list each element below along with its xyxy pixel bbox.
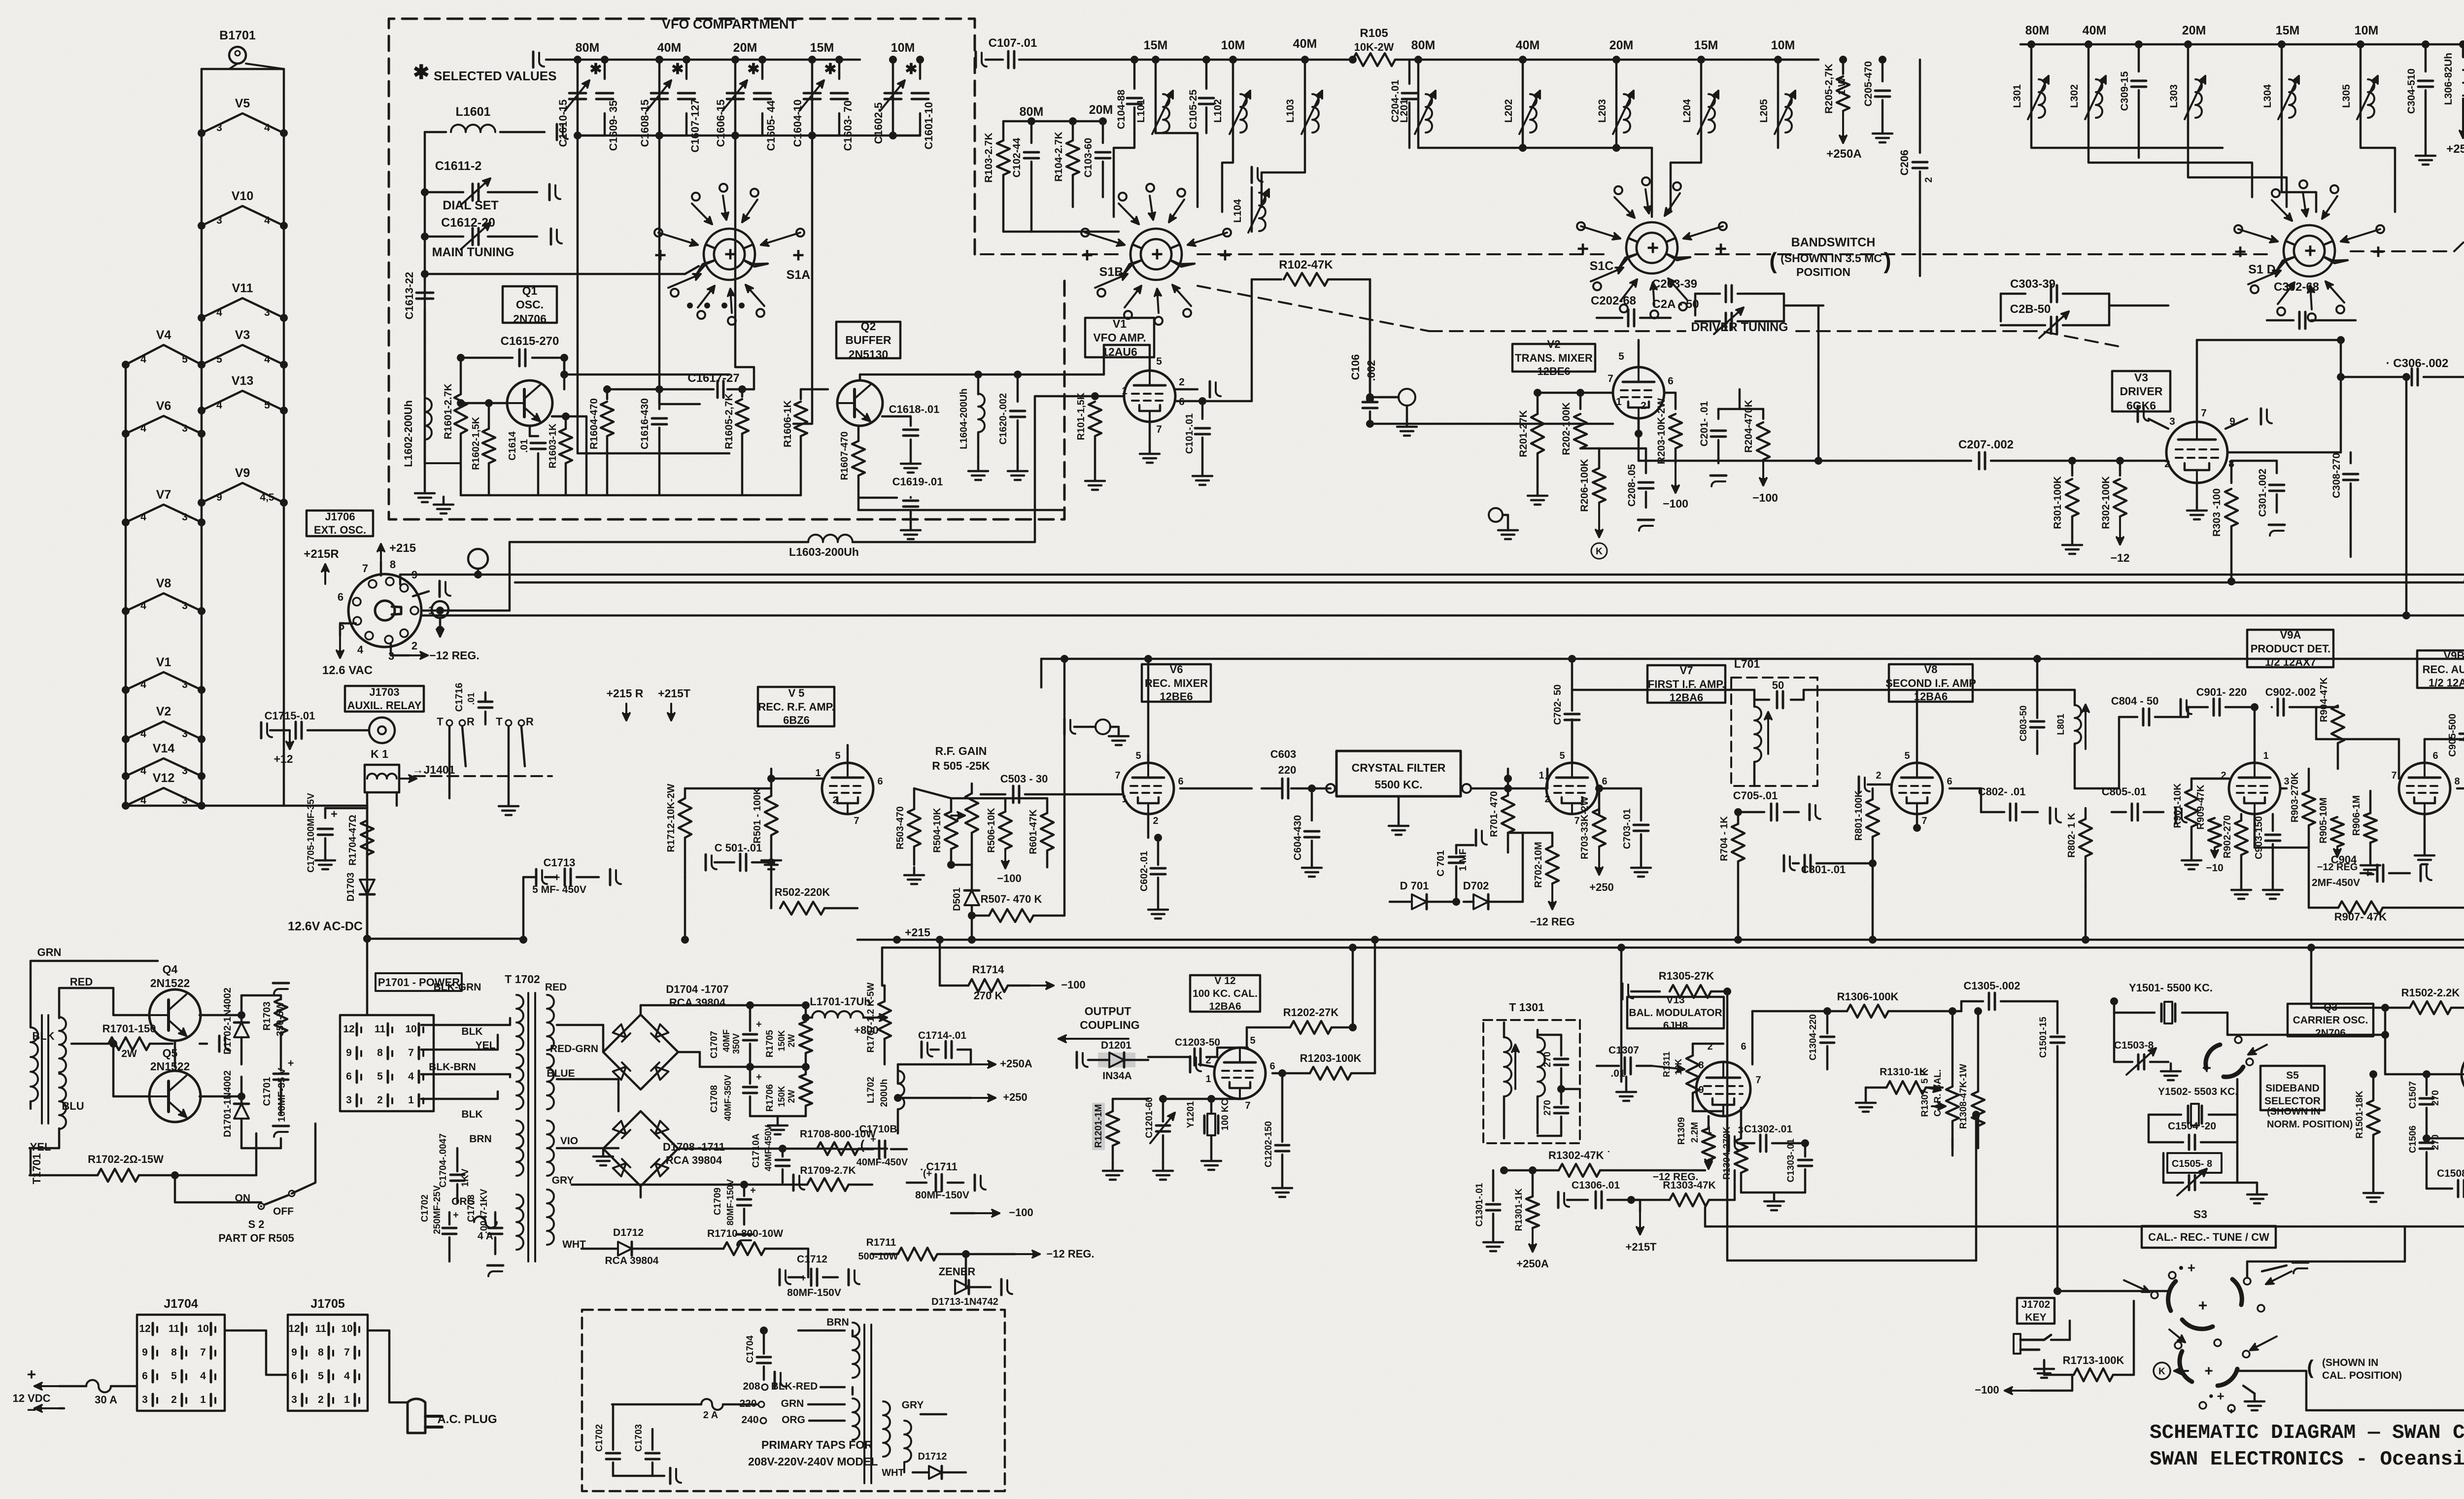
svg-text:C602-.01: C602-.01 bbox=[1139, 851, 1150, 891]
svg-text:−100: −100 bbox=[1061, 979, 1086, 991]
transformer T1301 enclosure bbox=[1483, 1020, 1580, 1143]
svg-text:5: 5 bbox=[377, 1071, 383, 1082]
svg-text:• +: • + bbox=[2209, 1389, 2224, 1403]
svg-text:3: 3 bbox=[2169, 416, 2175, 427]
svg-text:7: 7 bbox=[1574, 816, 1579, 826]
svg-text:12: 12 bbox=[288, 1323, 300, 1334]
svg-text:D1704 -1707: D1704 -1707 bbox=[666, 983, 728, 995]
svg-text:R909-47K: R909-47K bbox=[2195, 784, 2206, 830]
transistor Q1 bbox=[507, 380, 552, 426]
svg-text:2W: 2W bbox=[787, 1090, 796, 1103]
tube heater V12 bbox=[126, 788, 202, 806]
svg-text:S3: S3 bbox=[2193, 1208, 2207, 1221]
svg-text:CAL. POSITION): CAL. POSITION) bbox=[2322, 1370, 2402, 1381]
svg-text:V3: V3 bbox=[2134, 371, 2148, 384]
svg-text:BLK-RED: BLK-RED bbox=[771, 1381, 818, 1392]
wire bbox=[1620, 948, 1623, 981]
wire plate bbox=[1147, 814, 1150, 838]
transistor Q2 BUFFER 2N5130 label bbox=[836, 322, 900, 358]
svg-text:2: 2 bbox=[1923, 177, 1934, 182]
svg-text:V7: V7 bbox=[1680, 664, 1693, 677]
svg-text:40M: 40M bbox=[657, 41, 682, 55]
wire bbox=[2254, 814, 2256, 848]
svg-text:3: 3 bbox=[182, 728, 188, 740]
svg-text:SELECTOR: SELECTOR bbox=[2264, 1095, 2321, 1107]
svg-text:12BE6: 12BE6 bbox=[1537, 365, 1570, 377]
svg-text:3: 3 bbox=[182, 795, 188, 806]
svg-text:POSITION: POSITION bbox=[1796, 266, 1850, 278]
svg-text:PRODUCT DET.: PRODUCT DET. bbox=[2251, 643, 2331, 655]
svg-text:208V-220V-240V MODEL: 208V-220V-240V MODEL bbox=[748, 1455, 878, 1468]
svg-text:6: 6 bbox=[2432, 750, 2438, 761]
svg-text:V 5: V 5 bbox=[788, 687, 804, 699]
svg-text:L103: L103 bbox=[1285, 99, 1296, 123]
rotary switch S1B bbox=[1130, 229, 1182, 264]
svg-text:D 701: D 701 bbox=[1400, 880, 1429, 892]
svg-text:L205: L205 bbox=[1758, 99, 1770, 123]
svg-text:C1702: C1702 bbox=[594, 1424, 605, 1452]
wire bbox=[2074, 690, 2076, 695]
svg-text:R302-100K: R302-100K bbox=[2100, 476, 2112, 529]
svg-text:40M: 40M bbox=[1293, 37, 1317, 51]
svg-text:SCHEMATIC DIAGRAM — SWAN CYGNE: SCHEMATIC DIAGRAM — SWAN CYGNET — MODEL … bbox=[2150, 1422, 2464, 1444]
svg-text:C1202-150: C1202-150 bbox=[1264, 1121, 1274, 1167]
svg-text:KEY: KEY bbox=[2025, 1312, 2046, 1323]
svg-text:.01: .01 bbox=[1610, 1068, 1625, 1079]
svg-text:2: 2 bbox=[318, 1394, 324, 1405]
switch S5 label bbox=[2260, 1066, 2325, 1110]
svg-text:R202-100K: R202-100K bbox=[1561, 402, 1572, 455]
svg-text:C904: C904 bbox=[2331, 853, 2357, 866]
wire bbox=[125, 365, 127, 806]
svg-text:7: 7 bbox=[1245, 1100, 1250, 1111]
svg-text:10K-2W: 10K-2W bbox=[1354, 41, 1394, 53]
svg-text:80MF-150V: 80MF-150V bbox=[915, 1190, 969, 1201]
svg-text:BLK-GRN: BLK-GRN bbox=[434, 982, 481, 993]
svg-text:2: 2 bbox=[1641, 400, 1646, 411]
svg-text:−12 REG.: −12 REG. bbox=[1046, 1248, 1094, 1260]
arrow +215T bbox=[1639, 1212, 1641, 1234]
secondary windings bbox=[547, 995, 554, 1050]
svg-text:+: + bbox=[654, 243, 667, 267]
svg-text:20M: 20M bbox=[1089, 103, 1113, 117]
svg-text:D1713-1N4742: D1713-1N4742 bbox=[931, 1296, 998, 1307]
svg-text:100 KC. CAL.: 100 KC. CAL. bbox=[1193, 988, 1258, 999]
svg-text:(SHOWN IN: (SHOWN IN bbox=[2267, 1106, 2321, 1117]
svg-text:✱: ✱ bbox=[747, 61, 759, 77]
svg-text:C1505- 8: C1505- 8 bbox=[2172, 1158, 2212, 1169]
tube heater V9 bbox=[202, 483, 284, 503]
svg-text:ORG: ORG bbox=[782, 1414, 805, 1426]
tube heater V3 bbox=[202, 345, 284, 365]
wire plate bbox=[2196, 340, 2198, 422]
svg-text:CRYSTAL FILTER: CRYSTAL FILTER bbox=[1352, 761, 1446, 774]
svg-text:350V: 350V bbox=[731, 1033, 741, 1054]
wire bbox=[522, 939, 525, 940]
svg-text:✱: ✱ bbox=[905, 61, 917, 77]
wire bbox=[1598, 788, 1601, 809]
svg-text:15M: 15M bbox=[2276, 24, 2300, 37]
wire bbox=[1620, 981, 1623, 1082]
capacitor grid cap bbox=[1175, 388, 1198, 391]
svg-text:+250: +250 bbox=[1589, 881, 1614, 893]
svg-text:T1701: T1701 bbox=[31, 1154, 43, 1184]
svg-text:C1616-430: C1616-430 bbox=[639, 398, 650, 449]
wire bbox=[366, 939, 369, 1015]
wire GRY rail bbox=[572, 1184, 710, 1186]
svg-text:80MF-150V: 80MF-150V bbox=[725, 1179, 735, 1226]
svg-text:V4: V4 bbox=[156, 328, 171, 342]
svg-text:5: 5 bbox=[1559, 750, 1565, 761]
svg-text:C1503-8: C1503-8 bbox=[2114, 1040, 2154, 1051]
wire bbox=[684, 877, 686, 940]
ground bbox=[1865, 1088, 1867, 1095]
svg-text:OSC.: OSC. bbox=[516, 298, 544, 311]
svg-text:R1603-1K: R1603-1K bbox=[548, 423, 558, 469]
svg-text:L306-82Uh: L306-82Uh bbox=[2443, 53, 2454, 105]
wire cathode bbox=[2196, 483, 2198, 503]
svg-text:R101-1,5K: R101-1,5K bbox=[1076, 392, 1087, 440]
svg-text:8: 8 bbox=[318, 1347, 324, 1358]
wire V9A out bbox=[2280, 787, 2287, 790]
svg-text:C208-.05: C208-.05 bbox=[1626, 464, 1638, 507]
svg-text:C1707: C1707 bbox=[709, 1031, 719, 1058]
wire bbox=[2057, 1290, 2170, 1293]
variable capacitor C1602-5 bbox=[885, 92, 901, 95]
svg-text:B1701: B1701 bbox=[219, 29, 256, 42]
capacitor cal bbox=[2293, 1262, 2308, 1273]
svg-text:D702: D702 bbox=[1463, 880, 1489, 892]
svg-text:2N706: 2N706 bbox=[513, 312, 547, 325]
arrow 12.6 VAC bbox=[340, 623, 356, 636]
arrow +12 bbox=[289, 730, 291, 749]
svg-text:6GK6: 6GK6 bbox=[2126, 399, 2156, 412]
svg-text:150K: 150K bbox=[777, 1030, 787, 1051]
grid cap left bbox=[2149, 419, 2168, 429]
wire V7 out bbox=[1599, 787, 1605, 790]
wire bbox=[2109, 305, 2168, 307]
svg-text:C206: C206 bbox=[1898, 150, 1911, 176]
tube V13 label bbox=[1627, 997, 1724, 1028]
svg-text:208: 208 bbox=[743, 1381, 760, 1392]
svg-text:7: 7 bbox=[854, 816, 859, 826]
svg-text:T 1702: T 1702 bbox=[505, 973, 540, 986]
svg-text:R: R bbox=[467, 715, 475, 728]
svg-text:2: 2 bbox=[1876, 770, 1881, 781]
wire bbox=[1538, 1034, 1561, 1036]
svg-text:C1507: C1507 bbox=[2408, 1081, 2418, 1109]
svg-text:S1A: S1A bbox=[787, 268, 811, 282]
fuse 2A bbox=[701, 1399, 723, 1410]
svg-text:C703-.01: C703-.01 bbox=[1622, 809, 1633, 849]
svg-text:270: 270 bbox=[1542, 1052, 1553, 1067]
svg-text:C902-.002: C902-.002 bbox=[2265, 686, 2316, 698]
svg-text:C1713: C1713 bbox=[544, 856, 576, 869]
wire bbox=[1718, 408, 1763, 410]
dashed mech link bbox=[414, 775, 552, 777]
wire bbox=[1571, 659, 1574, 690]
svg-text:2: 2 bbox=[832, 795, 838, 806]
svg-text:4: 4 bbox=[140, 679, 146, 690]
svg-text:11: 11 bbox=[169, 1323, 180, 1334]
svg-text:+215 R: +215 R bbox=[607, 687, 644, 700]
svg-text:4: 4 bbox=[264, 354, 270, 365]
tube V9B 1/2 12AX7 bbox=[2399, 763, 2450, 814]
svg-text:C804 - 50: C804 - 50 bbox=[2111, 695, 2159, 707]
wire bbox=[2226, 1013, 2229, 1035]
svg-text:PRIMARY TAPS FOR: PRIMARY TAPS FOR bbox=[761, 1438, 873, 1451]
svg-text:C205-470: C205-470 bbox=[1863, 61, 1874, 106]
svg-text:+: + bbox=[2234, 240, 2247, 263]
wire relay feed bbox=[366, 806, 369, 939]
svg-text:6: 6 bbox=[1741, 1041, 1746, 1052]
wire bbox=[793, 136, 812, 424]
transformer L701 enclosure bbox=[1731, 678, 1817, 786]
svg-text:3: 3 bbox=[216, 215, 222, 226]
svg-text:C1506: C1506 bbox=[2408, 1125, 2418, 1153]
svg-text:C1702: C1702 bbox=[420, 1194, 430, 1222]
svg-text:+: + bbox=[1577, 237, 1589, 260]
svg-text:R1707-1.2 K-5W: R1707-1.2 K-5W bbox=[866, 983, 876, 1053]
svg-text:V10: V10 bbox=[232, 189, 253, 203]
svg-text:4: 4 bbox=[264, 122, 270, 134]
wire primary bbox=[421, 1024, 510, 1026]
svg-text:1: 1 bbox=[2263, 750, 2268, 761]
svg-text:S1 D: S1 D bbox=[2248, 263, 2276, 276]
svg-text:3: 3 bbox=[264, 307, 270, 318]
svg-text:BRN: BRN bbox=[826, 1317, 849, 1328]
svg-text:(: ( bbox=[2307, 1357, 2314, 1378]
svg-text:C702- 50: C702- 50 bbox=[1552, 684, 1563, 725]
svg-text:(+: (+ bbox=[923, 1168, 932, 1179]
svg-text:V 12: V 12 bbox=[1214, 975, 1235, 987]
windings bbox=[853, 1323, 859, 1378]
svg-text:L303: L303 bbox=[2168, 84, 2180, 108]
svg-text:4: 4 bbox=[140, 795, 146, 806]
connector J1706 EXT. OSC. label bbox=[307, 511, 373, 536]
rotary switch S1A bbox=[704, 229, 755, 264]
svg-text:7: 7 bbox=[200, 1347, 206, 1358]
svg-text:4,5: 4,5 bbox=[260, 492, 274, 503]
wire ground bus bbox=[461, 494, 801, 497]
wire bbox=[1156, 59, 1353, 61]
svg-text:R205-2,7K: R205-2,7K bbox=[1823, 64, 1835, 114]
svg-text:J1705: J1705 bbox=[310, 1297, 345, 1311]
svg-text:R1709-2.7K: R1709-2.7K bbox=[800, 1165, 856, 1176]
key jack bbox=[2014, 1334, 2051, 1354]
tube socket J1706 bbox=[348, 574, 421, 647]
svg-text:J1702: J1702 bbox=[2021, 1299, 2050, 1310]
variable capacitor C1610-15 bbox=[569, 92, 586, 95]
svg-text:D1201: D1201 bbox=[1101, 1040, 1131, 1051]
svg-text:4: 4 bbox=[200, 1370, 206, 1382]
svg-text:(: ( bbox=[1769, 248, 1777, 273]
svg-text:BRN: BRN bbox=[469, 1133, 492, 1145]
svg-text:✱: ✱ bbox=[589, 61, 602, 77]
capacitor C1613 top lead bbox=[533, 52, 544, 68]
svg-text:R1705: R1705 bbox=[765, 1030, 775, 1057]
wire cathode bbox=[1149, 422, 1151, 446]
svg-text:40MF: 40MF bbox=[721, 1029, 731, 1052]
arrow J1401 bbox=[399, 778, 416, 780]
phono jack bbox=[1399, 389, 1415, 406]
svg-text:C1304-220: C1304-220 bbox=[1808, 1014, 1818, 1060]
svg-text:C1201-60: C1201-60 bbox=[1144, 1097, 1155, 1138]
rotary switch S3 wafer A bbox=[2168, 1281, 2176, 1311]
svg-text:C1504 -20: C1504 -20 bbox=[2168, 1121, 2216, 1132]
wire bbox=[1369, 279, 1371, 392]
svg-text:20M: 20M bbox=[733, 41, 757, 55]
svg-text:R903-270K: R903-270K bbox=[2290, 772, 2300, 822]
svg-text:2N1522: 2N1522 bbox=[150, 977, 190, 989]
svg-text:R504-10K: R504-10K bbox=[932, 808, 943, 853]
svg-text:1: 1 bbox=[1616, 396, 1622, 408]
svg-text:+: + bbox=[870, 1134, 876, 1145]
wire bbox=[2310, 948, 2313, 1008]
tube V8 12BA6 bbox=[1891, 763, 1943, 814]
svg-text:.01: .01 bbox=[519, 439, 530, 453]
svg-text:Q1: Q1 bbox=[522, 284, 538, 297]
svg-text:L1701-17Uh: L1701-17Uh bbox=[810, 995, 871, 1008]
wire bbox=[2424, 739, 2426, 763]
svg-text:5: 5 bbox=[182, 354, 188, 365]
svg-text:BAL. MODULATOR: BAL. MODULATOR bbox=[1629, 1007, 1722, 1019]
wire emitter row bbox=[585, 416, 588, 495]
svg-text:5: 5 bbox=[264, 400, 270, 411]
svg-text:C1609- 35: C1609- 35 bbox=[607, 101, 619, 151]
svg-text:80MF-150V: 80MF-150V bbox=[787, 1287, 841, 1298]
svg-text:L305: L305 bbox=[2341, 84, 2352, 108]
tube V1 12AU6 bbox=[1124, 371, 1175, 422]
svg-text:10M: 10M bbox=[2355, 24, 2379, 37]
tube V13 6JH8 bbox=[1696, 1062, 1750, 1116]
svg-text:C1710A: C1710A bbox=[751, 1133, 761, 1168]
svg-text:R1712-10K-2W: R1712-10K-2W bbox=[666, 784, 677, 852]
svg-text:12BA6: 12BA6 bbox=[1209, 1001, 1241, 1012]
winding secondary bbox=[1538, 1037, 1545, 1096]
svg-text:R1501-18K: R1501-18K bbox=[2355, 1090, 2365, 1138]
svg-text:+215R: +215R bbox=[304, 547, 339, 561]
tube V8 label bbox=[1889, 664, 1973, 702]
svg-text:D1702-1N4002: D1702-1N4002 bbox=[222, 988, 233, 1055]
svg-text:C201- .01: C201- .01 bbox=[1699, 401, 1710, 447]
svg-text:C1704-.0047: C1704-.0047 bbox=[438, 1133, 448, 1188]
svg-text:6: 6 bbox=[1947, 776, 1952, 787]
svg-text:V1: V1 bbox=[156, 655, 171, 669]
svg-text:1: 1 bbox=[1122, 385, 1128, 397]
wire bbox=[1240, 1047, 1248, 1049]
wire xtal to V7 bbox=[1546, 769, 1549, 779]
wire bbox=[30, 1148, 32, 1175]
ground bbox=[2243, 1386, 2255, 1394]
inductor L103 bbox=[1304, 60, 1306, 94]
svg-text:L102: L102 bbox=[1212, 99, 1224, 123]
ground bbox=[424, 485, 426, 493]
svg-text:R1306-100K: R1306-100K bbox=[1837, 990, 1899, 1003]
svg-text:9: 9 bbox=[142, 1347, 148, 1358]
svg-text:R1601-2.7K: R1601-2.7K bbox=[443, 383, 454, 439]
svg-text:7: 7 bbox=[2201, 408, 2207, 419]
svg-text:C104-88: C104-88 bbox=[1116, 89, 1127, 129]
wire V9A grid bbox=[2191, 778, 2229, 780]
svg-text:D1703: D1703 bbox=[345, 873, 356, 902]
svg-text:C503 - 30: C503 - 30 bbox=[1000, 773, 1048, 785]
svg-text:C705-.01: C705-.01 bbox=[1733, 789, 1778, 802]
wire bbox=[939, 939, 941, 941]
svg-text:R904-47K: R904-47K bbox=[2319, 677, 2329, 722]
svg-text:C304-510: C304-510 bbox=[2406, 68, 2417, 114]
wire bus C bbox=[421, 614, 2464, 617]
svg-text:CAL.- REC.- TUNE / CW: CAL.- REC.- TUNE / CW bbox=[2148, 1231, 2269, 1243]
svg-text:C1703: C1703 bbox=[634, 1424, 644, 1452]
wire bbox=[578, 135, 920, 137]
wire bbox=[366, 894, 369, 939]
svg-text:R704 - 1K: R704 - 1K bbox=[1719, 816, 1730, 861]
svg-text:7: 7 bbox=[362, 562, 368, 575]
svg-text:6BZ6: 6BZ6 bbox=[783, 714, 810, 726]
svg-text:2MF-450V: 2MF-450V bbox=[2312, 877, 2360, 888]
svg-text:L801: L801 bbox=[2056, 714, 2066, 735]
svg-text:R1701-150: R1701-150 bbox=[103, 1022, 156, 1035]
svg-text:7: 7 bbox=[344, 1347, 350, 1358]
svg-text:R1607-470: R1607-470 bbox=[839, 432, 850, 480]
svg-text:3: 3 bbox=[346, 1094, 352, 1106]
svg-text:R204-470K: R204-470K bbox=[1743, 400, 1754, 452]
wire bbox=[200, 1014, 241, 1017]
svg-text:L1602-200Uh: L1602-200Uh bbox=[402, 400, 414, 467]
svg-text:1: 1 bbox=[815, 768, 821, 779]
svg-text:T: T bbox=[496, 715, 503, 728]
svg-text:3: 3 bbox=[291, 1394, 297, 1405]
svg-text:+: + bbox=[1151, 242, 1164, 266]
svg-text:8: 8 bbox=[2454, 776, 2460, 787]
svg-text:2: 2 bbox=[1179, 376, 1185, 388]
svg-text:11: 11 bbox=[375, 1023, 386, 1035]
svg-text:L302: L302 bbox=[2069, 84, 2080, 108]
wire bbox=[1872, 887, 1874, 940]
primary taps enclosure bbox=[582, 1310, 1005, 1491]
ground bbox=[1095, 719, 1110, 734]
rotary switch S1C bbox=[1626, 222, 1677, 258]
svg-text:C603: C603 bbox=[1270, 748, 1297, 760]
svg-text:Y1501- 5500 KC.: Y1501- 5500 KC. bbox=[2129, 982, 2213, 994]
svg-text:R1311: R1311 bbox=[1662, 1052, 1672, 1077]
svg-text:+: + bbox=[2204, 1363, 2213, 1379]
svg-text:4: 4 bbox=[140, 600, 146, 612]
svg-text:80M: 80M bbox=[1020, 105, 1044, 119]
svg-text:BLUE: BLUE bbox=[547, 1068, 575, 1079]
svg-text:+: + bbox=[1715, 237, 1727, 260]
svg-text:R1308-47K-1W: R1308-47K-1W bbox=[1958, 1064, 1969, 1129]
svg-text:R1307- 5 K: R1307- 5 K bbox=[1920, 1069, 1930, 1117]
svg-text:L301: L301 bbox=[2012, 84, 2023, 108]
svg-text:D1701-1N4002: D1701-1N4002 bbox=[222, 1070, 233, 1137]
tube V6 label bbox=[1142, 664, 1211, 702]
svg-text:D1712: D1712 bbox=[918, 1451, 947, 1462]
svg-text:VFO AMP.: VFO AMP. bbox=[1093, 331, 1146, 344]
tube V7 label bbox=[1647, 665, 1725, 703]
svg-text:COUPLING: COUPLING bbox=[1080, 1019, 1139, 1031]
svg-text:BLK: BLK bbox=[32, 1030, 54, 1042]
capacitor C1603- 70 bbox=[831, 92, 848, 95]
svg-text:R801-100K: R801-100K bbox=[1853, 790, 1864, 841]
svg-text:✱: ✱ bbox=[671, 61, 684, 77]
resistor R1201-1M bbox=[1092, 1103, 1105, 1150]
svg-text:MAIN TUNING: MAIN TUNING bbox=[432, 245, 514, 259]
svg-text:GRY: GRY bbox=[552, 1175, 574, 1186]
svg-text:C308-270: C308-270 bbox=[2331, 453, 2342, 498]
svg-text:R502-220K: R502-220K bbox=[775, 886, 830, 898]
